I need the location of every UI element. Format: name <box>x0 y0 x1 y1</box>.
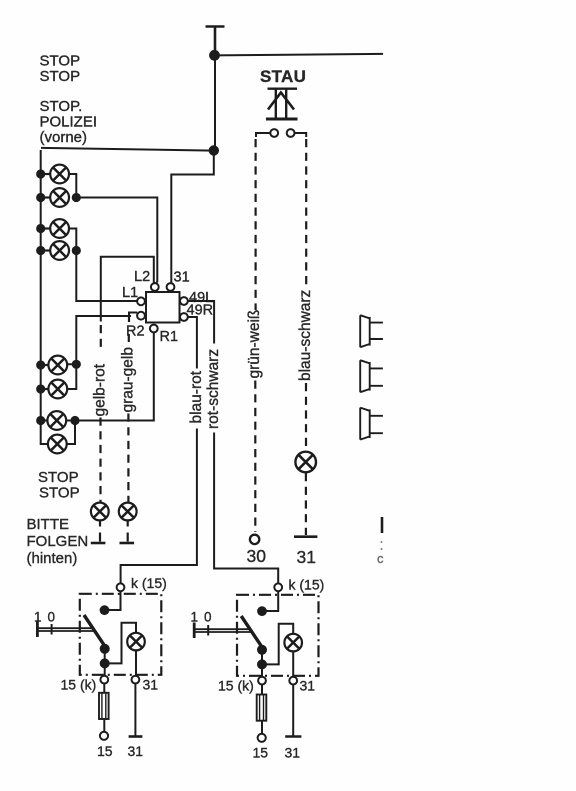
wire: fuse to terminal 15 <box>103 719 105 732</box>
wire+ground under rear lamp right <box>127 521 129 542</box>
node: pair A output <box>72 193 81 202</box>
svg-text:31: 31 <box>174 270 190 286</box>
node: bus-lamp6 <box>36 384 45 393</box>
lamp 5 (pair C top) <box>41 356 67 375</box>
switch1 fixed contact dot <box>100 605 110 615</box>
svg-text:STOP: STOP <box>40 68 81 85</box>
node: bus-lamp1 <box>36 169 45 178</box>
wire: blau-schwarz dashed lower <box>305 473 307 535</box>
svg-text:49R: 49R <box>187 303 214 319</box>
svg-text:15: 15 <box>253 745 269 761</box>
svg-text:rot-schwarz: rot-schwarz <box>205 349 222 429</box>
node: pair C output <box>72 360 81 369</box>
STAU contact right <box>287 129 295 137</box>
relay pin 49R <box>180 313 188 321</box>
switch2 labels <box>191 577 325 761</box>
relay U1 (hazard flasher) body <box>146 292 180 323</box>
wire: pair A to relay L2 <box>76 198 157 285</box>
relay pin R1 <box>150 325 158 333</box>
svg-text:0: 0 <box>48 610 56 625</box>
wire: vertical drop from supply node <box>214 55 216 150</box>
svg-text:blau-rot: blau-rot <box>188 370 205 423</box>
switch2 lever <box>241 616 265 652</box>
wire: pair D to relay R1 <box>75 333 154 421</box>
relay pin labels <box>122 269 213 345</box>
wire: left lamp bus (vorne/front lamps) <box>41 150 49 444</box>
relay pin R2 <box>137 312 145 320</box>
switch2 terminal 31 <box>289 677 297 685</box>
relay pin L1 <box>137 297 145 305</box>
wire: rot-schwarz from 49L to right switch k(15) <box>188 301 278 583</box>
svg-text:31: 31 <box>285 745 301 761</box>
svg-text:L1: L1 <box>122 285 138 301</box>
wire: supply stub with end cap at top <box>206 27 225 56</box>
svg-text:31: 31 <box>143 677 159 693</box>
node: pair B output <box>72 246 81 255</box>
svg-text:STOP: STOP <box>38 469 79 486</box>
switch1 terminal 15(k) <box>100 676 108 684</box>
node: front-lamp feed junction <box>209 145 219 155</box>
rear lamp left (hinten) <box>91 503 109 521</box>
switch1 terminal 15 circle <box>100 732 108 740</box>
wire: STAU left stub <box>256 133 270 137</box>
wire: switch2 output to 15(k) <box>261 650 263 677</box>
wire: switch1 output to 15(k) <box>104 649 106 676</box>
wire: switch1 k15 into box <box>108 591 121 610</box>
svg-text:(vorne): (vorne) <box>40 129 88 146</box>
rear lamp right (hinten) <box>119 503 137 521</box>
wire: blau-rot from 49R to left switch k(15) <box>121 317 197 583</box>
fuse F2 <box>261 685 263 695</box>
switch1 lever dot <box>100 644 110 654</box>
lamp 3 (pair B top) <box>41 219 69 238</box>
horn 1 <box>360 315 383 347</box>
wire: gelb-rot dashed drop to rear-left lamp <box>100 325 102 352</box>
wire+ground: switch2 terminal 31 <box>292 685 294 737</box>
wire: pair C right link <box>67 364 76 389</box>
svg-text:31: 31 <box>297 547 316 567</box>
STAU contact left <box>270 129 278 137</box>
node: bus-lamp3 <box>36 224 45 233</box>
svg-text:POLIZEI: POLIZEI <box>40 114 98 131</box>
switch1 lever <box>84 615 108 651</box>
svg-text:0: 0 <box>204 610 212 625</box>
lamp 1 (front left pair A top) <box>41 165 69 184</box>
node: bus-lamp7 <box>36 416 45 425</box>
switch1 control lamp <box>127 633 145 651</box>
svg-text:(hinten): (hinten) <box>27 550 78 567</box>
ground: blau-schwarz terminal 31 <box>294 535 317 538</box>
lamp 2 (front left pair A bottom) <box>41 188 69 207</box>
wire: pair D right link <box>66 421 75 445</box>
wire: fuse2 to terminal 15 <box>261 721 263 734</box>
wire: switch2 lamp branch <box>262 624 293 665</box>
svg-text:k (15): k (15) <box>131 575 167 591</box>
svg-text:k (15): k (15) <box>289 577 325 593</box>
wire+ground under rear lamp left <box>99 521 101 542</box>
horn 3 <box>360 408 383 440</box>
node: bus-lamp4 <box>36 246 45 255</box>
fuse F1 <box>103 684 105 693</box>
wire: top horizontal bus to right edge <box>215 54 384 56</box>
relay pin 31 <box>167 283 175 291</box>
svg-text:15 (k): 15 (k) <box>61 677 97 693</box>
switch1 terminal 31 <box>132 676 140 684</box>
switch1 k(15) terminal <box>117 583 125 591</box>
wire: switch2 k15 into box <box>266 591 279 611</box>
svg-text:L2: L2 <box>134 269 150 285</box>
cropped wire stub at right edge <box>381 517 384 533</box>
switch1 output dot <box>100 658 110 668</box>
wire: grau-gelb dashed drop to rear-right lamp <box>128 316 130 322</box>
lamp on blau-schwarz line <box>295 452 316 473</box>
wire: gruen-weiss dashed line to terminal 30 <box>255 139 257 310</box>
switch2 fixed contact dot <box>257 606 267 616</box>
node: bus-lamp5 <box>36 360 45 369</box>
rotated wire-colour labels <box>92 290 314 429</box>
svg-text:1: 1 <box>34 610 42 625</box>
wire: switch1 lamp to 31 <box>135 650 137 675</box>
relay pin L2 <box>151 283 159 291</box>
svg-text:R2: R2 <box>126 324 145 340</box>
svg-text:STOP: STOP <box>39 485 80 502</box>
switch2 k(15) terminal <box>274 583 282 591</box>
switch2 lever dot <box>257 645 267 655</box>
svg-text:1: 1 <box>191 610 199 625</box>
terminal 30 circle <box>250 535 259 544</box>
wire: pair A right link <box>69 174 76 198</box>
lamp 4 (pair B bottom) <box>41 241 69 260</box>
svg-text:31: 31 <box>300 678 316 694</box>
lamp 7 (pair D top) <box>41 411 66 430</box>
svg-text:15 (k): 15 (k) <box>218 678 254 694</box>
svg-text:31: 31 <box>128 743 144 759</box>
switch2 output dot <box>257 659 267 669</box>
svg-text:gelb-rot: gelb-rot <box>92 363 109 416</box>
switch2 terminal 15(k) <box>258 677 266 685</box>
wire: gelb-rot solid branch from L2 <box>101 257 154 322</box>
svg-text:FOLGEN: FOLGEN <box>27 533 89 550</box>
relay pin 49L <box>180 297 188 305</box>
svg-text:c: c <box>377 551 384 566</box>
wire: blau-schwarz dashed upper <box>305 139 307 287</box>
horn 2 <box>360 360 383 392</box>
svg-text:STAU: STAU <box>260 67 306 86</box>
node: bus-lamp2 <box>36 193 45 202</box>
switch2 terminal 15 circle <box>258 734 266 742</box>
switch2 control lamp <box>284 634 302 652</box>
STAU push button symbol <box>266 89 298 119</box>
wire: pair B to relay L1 <box>76 251 137 302</box>
svg-text:STOP.: STOP. <box>40 98 83 115</box>
wire: switch1 lamp branch <box>105 623 136 664</box>
svg-text:15: 15 <box>97 743 113 759</box>
switch box 2 frame <box>237 595 319 676</box>
wire: feed to front lamp bus <box>41 148 214 151</box>
svg-text:blau-schwarz: blau-schwarz <box>297 290 314 381</box>
lamp 8 (pair D bottom) <box>48 435 67 454</box>
svg-text:R1: R1 <box>160 329 179 345</box>
svg-text:BITTE: BITTE <box>27 516 70 533</box>
switch1 actuator (1-0) <box>36 622 39 638</box>
wire+ground: switch1 terminal 31 <box>134 684 136 737</box>
wire: pair B right link <box>69 229 76 251</box>
wire: STAU right stub <box>295 133 307 137</box>
node: top supply junction <box>209 50 220 61</box>
svg-text:30: 30 <box>247 546 267 566</box>
svg-text:grün-weiß: grün-weiß <box>246 310 263 379</box>
lamp 6 (pair C bottom) <box>41 380 67 399</box>
svg-text:grau-gelb: grau-gelb <box>120 347 137 413</box>
node: pair D output <box>70 416 79 425</box>
wire: feed to relay terminal 31 <box>171 151 214 284</box>
wire: switch2 lamp to 31 <box>292 651 294 676</box>
wire: pair C to relay R2 <box>76 313 137 365</box>
switch box 1 frame <box>80 594 162 675</box>
switch1 labels <box>34 575 167 759</box>
switch2 actuator (1-0) <box>193 623 196 639</box>
